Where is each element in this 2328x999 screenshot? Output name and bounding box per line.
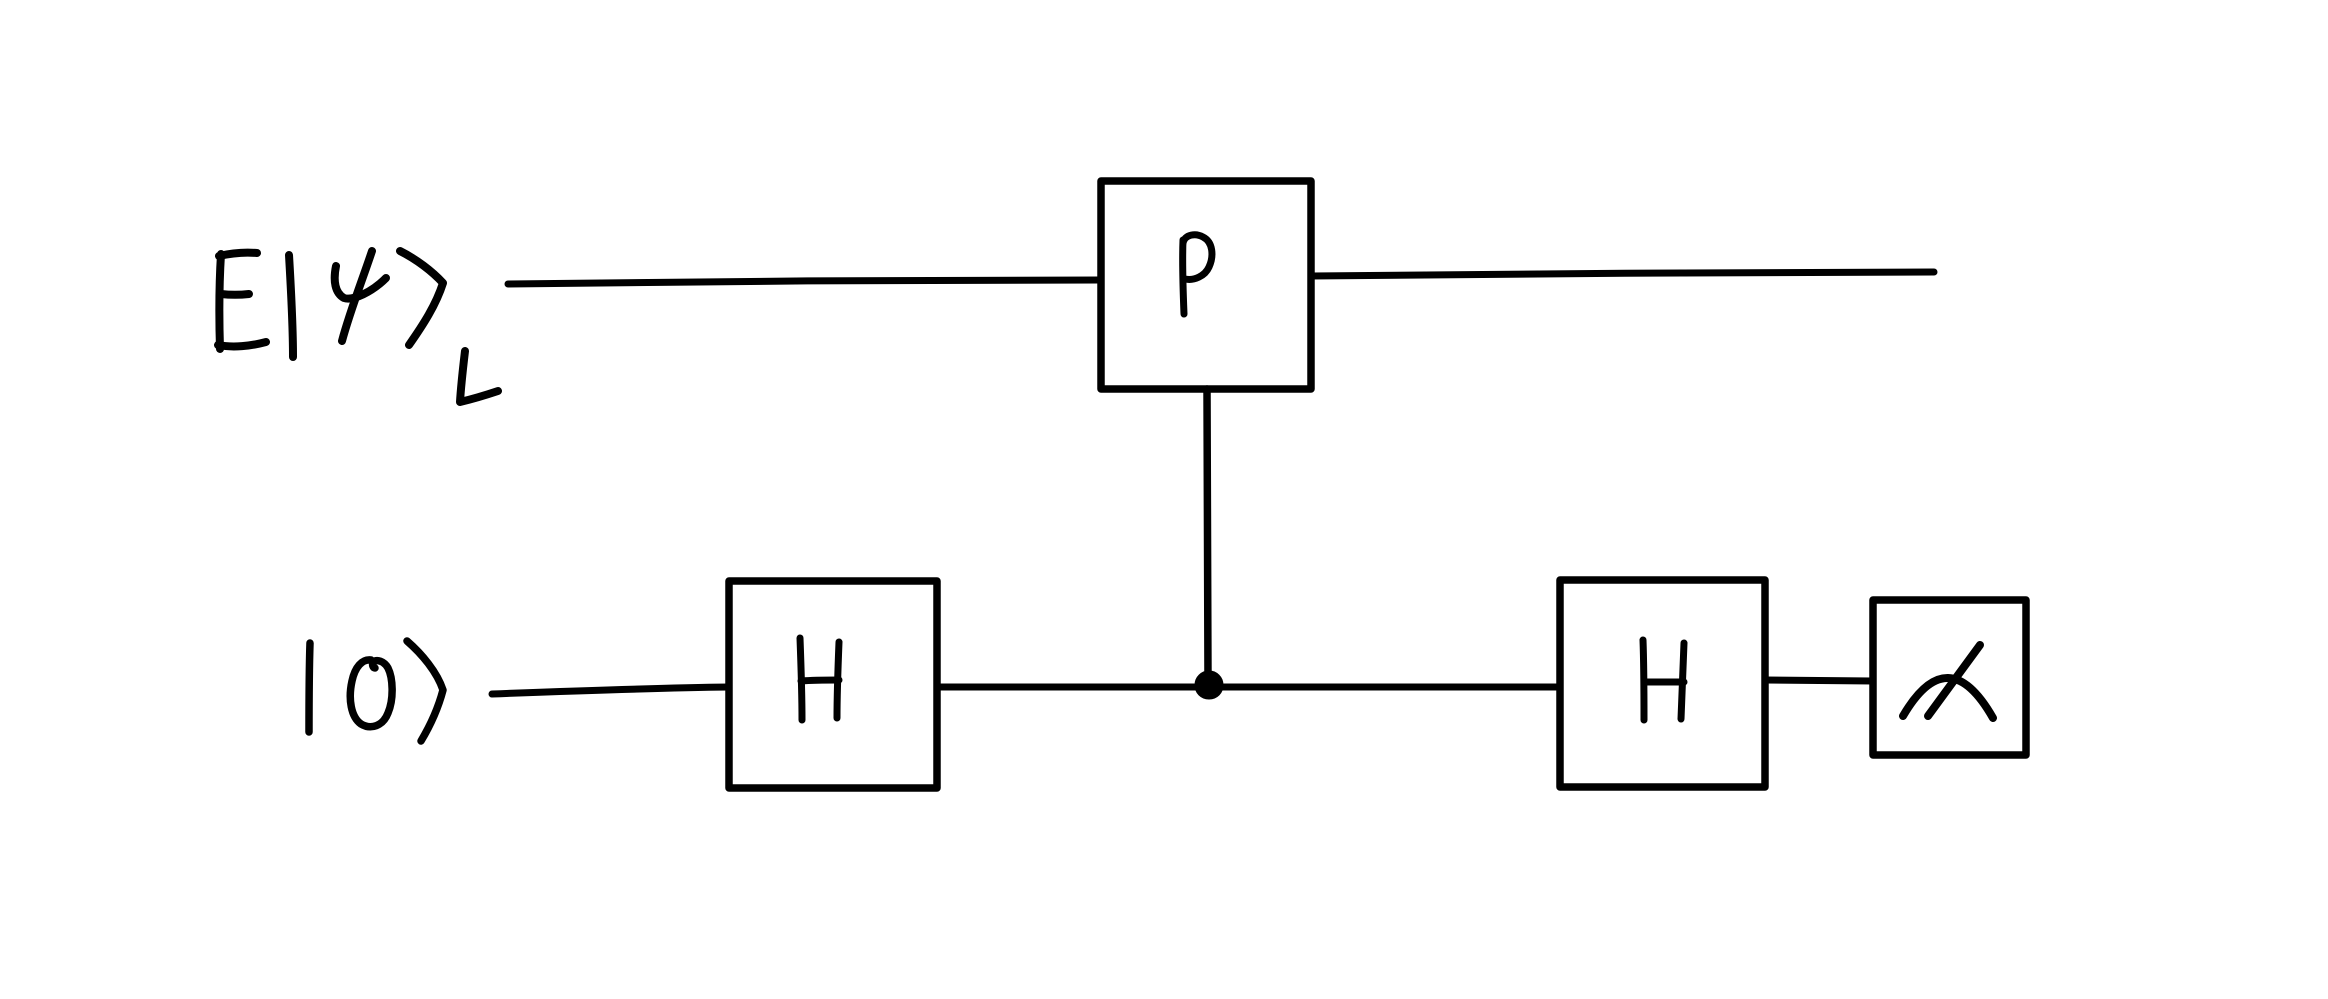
measurement meter needle (1928, 645, 1980, 716)
wire bottom segment 3 (1765, 680, 1873, 681)
gate H2 box (1560, 580, 1765, 787)
gate H1 box (729, 581, 937, 788)
label |0> (ancilla input state) (309, 641, 443, 741)
gate H1 letter (800, 638, 839, 720)
wire vertical control link from P (1207, 389, 1208, 680)
gate P box (1101, 181, 1311, 389)
label E|psi>_L (logical input state) (218, 251, 498, 402)
measurement meter box (1873, 600, 2026, 755)
wire bottom segment 2 (through control node) (937, 684, 1560, 691)
control node dot (1196, 672, 1223, 699)
measurement meter arc (1903, 678, 1993, 718)
wire top-right segment (1311, 272, 1934, 276)
wire bottom segment 1 (492, 687, 729, 694)
wire top-left segment (508, 280, 1101, 284)
gate H2 letter (1643, 640, 1684, 720)
gate P letter (1183, 235, 1212, 314)
